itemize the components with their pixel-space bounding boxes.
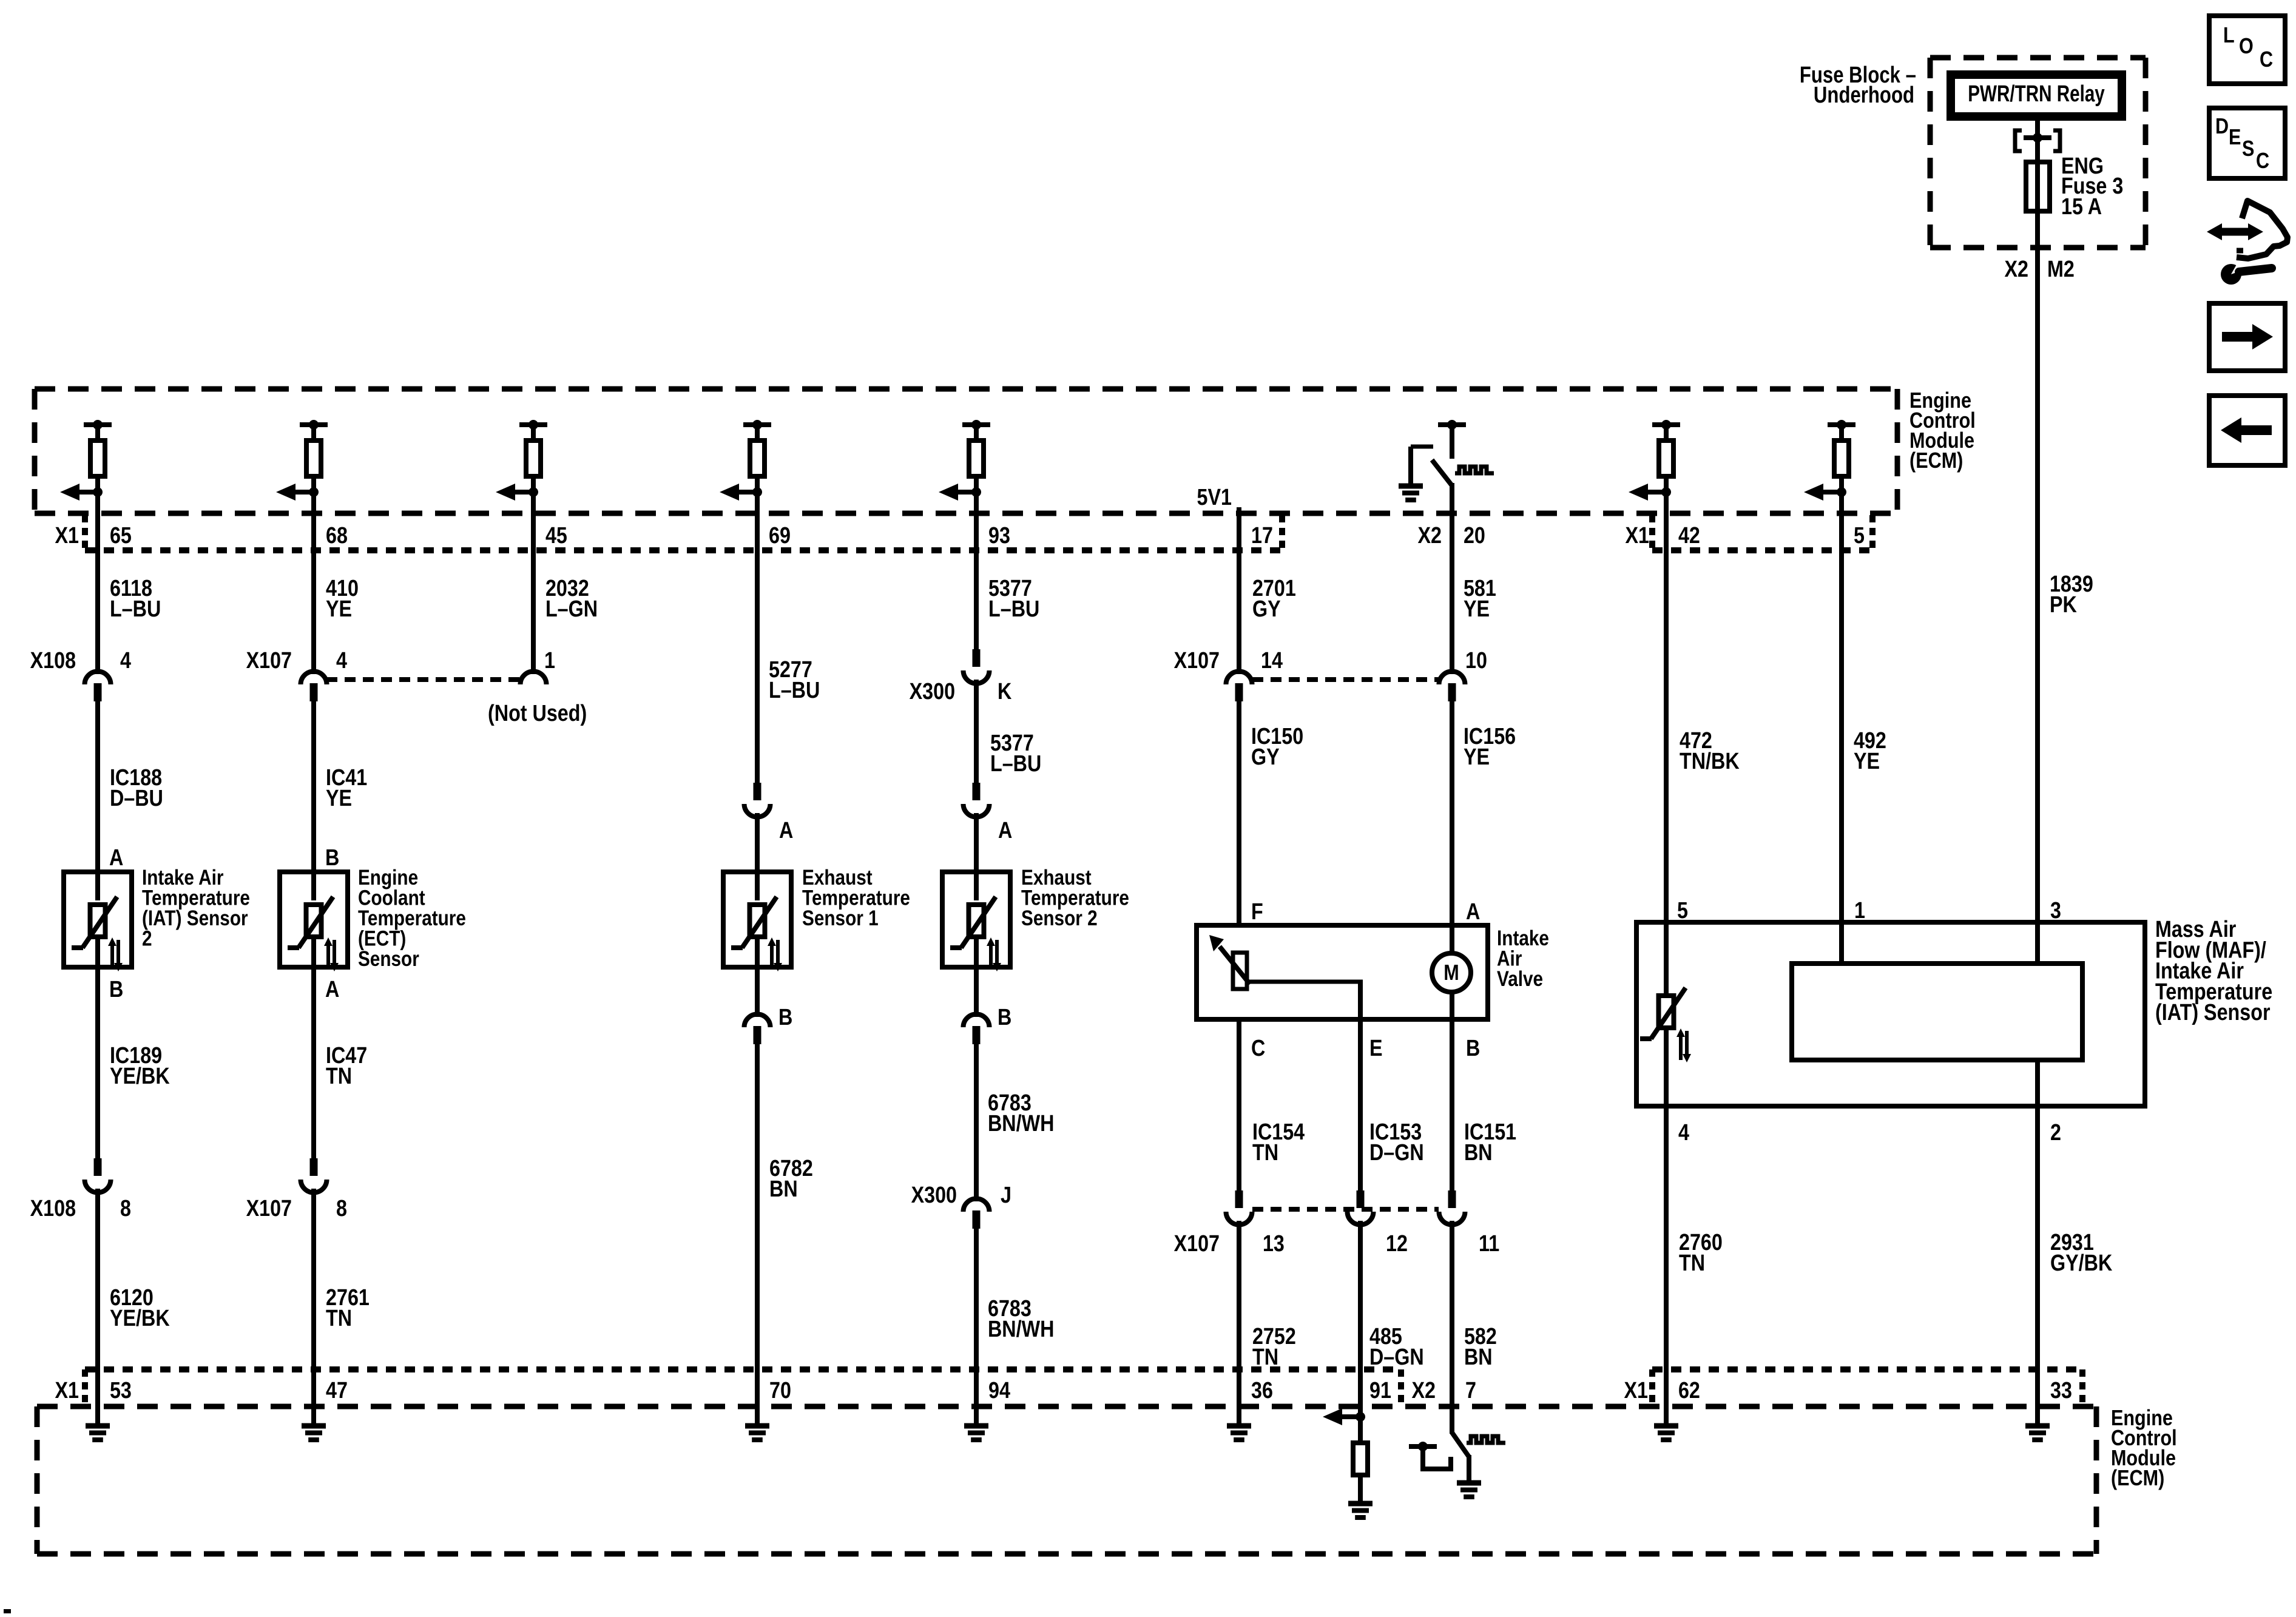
svg-text:11: 11 — [1479, 1231, 1499, 1257]
svg-text:1: 1 — [544, 648, 555, 673]
svg-text:K: K — [998, 679, 1012, 704]
svg-text:B: B — [109, 977, 123, 1002]
svg-text:X300: X300 — [910, 679, 955, 704]
svg-text:3: 3 — [2050, 898, 2061, 923]
svg-text:62: 62 — [1678, 1378, 1700, 1403]
svg-text:TN: TN — [1252, 1140, 1278, 1166]
svg-text:C: C — [2256, 149, 2269, 174]
svg-text:17: 17 — [1251, 523, 1273, 549]
svg-text:E: E — [1369, 1036, 1383, 1061]
svg-text:2: 2 — [2050, 1120, 2061, 1146]
svg-text:L–GN: L–GN — [545, 596, 598, 622]
svg-text:BN: BN — [1464, 1140, 1493, 1166]
svg-text:(Not Used): (Not Used) — [488, 701, 587, 726]
svg-text:A: A — [998, 818, 1012, 843]
svg-text:5V1: 5V1 — [1197, 485, 1232, 510]
svg-text:X1: X1 — [55, 1378, 78, 1403]
svg-text:TN: TN — [1252, 1345, 1278, 1370]
svg-text:4: 4 — [1678, 1120, 1689, 1146]
svg-text:A: A — [109, 845, 123, 871]
svg-text:X108: X108 — [30, 1196, 76, 1221]
svg-text:X1: X1 — [55, 523, 78, 549]
svg-text:93: 93 — [988, 523, 1010, 549]
svg-text:68: 68 — [326, 523, 348, 549]
svg-text:YE: YE — [1464, 744, 1490, 770]
svg-text:L–BU: L–BU — [990, 751, 1041, 777]
svg-text:F: F — [1251, 899, 1263, 925]
svg-text:D–GN: D–GN — [1369, 1140, 1424, 1166]
svg-text:14: 14 — [1261, 648, 1283, 673]
svg-text:12: 12 — [1386, 1231, 1408, 1257]
svg-text:BN/WH: BN/WH — [988, 1317, 1054, 1342]
svg-text:D–BU: D–BU — [110, 786, 163, 811]
svg-text:PK: PK — [2050, 592, 2077, 618]
svg-text:A: A — [779, 818, 793, 843]
svg-text:X2: X2 — [1418, 523, 1442, 549]
svg-text:L–BU: L–BU — [988, 596, 1039, 622]
svg-text:TN: TN — [1679, 1251, 1705, 1276]
svg-text:8: 8 — [120, 1196, 131, 1221]
svg-text:A: A — [325, 977, 339, 1002]
svg-text:B: B — [325, 845, 339, 871]
svg-text:13: 13 — [1263, 1231, 1285, 1257]
svg-text:2: 2 — [142, 927, 152, 950]
svg-text:BN/WH: BN/WH — [988, 1111, 1054, 1136]
svg-text:36: 36 — [1251, 1378, 1273, 1403]
svg-text:O: O — [2239, 35, 2254, 59]
svg-text:YE: YE — [326, 596, 352, 622]
svg-text:X108: X108 — [30, 648, 76, 673]
svg-text:D: D — [2215, 115, 2229, 139]
svg-text:Underhood: Underhood — [1814, 83, 1914, 108]
svg-text:BN: BN — [1464, 1345, 1493, 1370]
svg-text:E: E — [2229, 126, 2241, 150]
svg-text:4: 4 — [120, 648, 131, 673]
svg-text:X1: X1 — [1625, 523, 1649, 549]
svg-text:53: 53 — [110, 1378, 132, 1403]
svg-text:8: 8 — [336, 1196, 347, 1221]
svg-text:YE/BK: YE/BK — [110, 1064, 170, 1089]
svg-text:5: 5 — [1677, 898, 1688, 923]
svg-text:BN: BN — [769, 1176, 798, 1202]
svg-text:TN: TN — [326, 1064, 352, 1089]
svg-text:C: C — [2260, 48, 2273, 72]
svg-text:B: B — [998, 1005, 1011, 1030]
svg-text:(IAT) Sensor: (IAT) Sensor — [142, 906, 248, 930]
svg-text:42: 42 — [1678, 523, 1700, 549]
svg-text:(IAT) Sensor: (IAT) Sensor — [2155, 1000, 2271, 1025]
svg-text:(ECM): (ECM) — [2111, 1467, 2164, 1491]
svg-text:94: 94 — [988, 1378, 1010, 1403]
svg-text:10: 10 — [1465, 648, 1487, 673]
svg-text:Sensor: Sensor — [358, 947, 419, 971]
svg-text:A: A — [1466, 899, 1480, 925]
svg-text:M2: M2 — [2047, 257, 2075, 282]
svg-text:GY: GY — [1252, 596, 1281, 622]
svg-text:J: J — [1001, 1183, 1011, 1208]
svg-text:47: 47 — [326, 1378, 348, 1403]
svg-text:YE/BK: YE/BK — [110, 1306, 170, 1331]
svg-text:YE: YE — [326, 786, 352, 811]
svg-text:GY/BK: GY/BK — [2050, 1251, 2113, 1276]
svg-text:70: 70 — [769, 1378, 791, 1403]
svg-text:5: 5 — [1854, 523, 1865, 549]
svg-text:M: M — [1443, 961, 1459, 985]
svg-text:X300: X300 — [911, 1183, 957, 1208]
svg-text:33: 33 — [2050, 1378, 2072, 1403]
svg-text:Sensor 1: Sensor 1 — [802, 906, 879, 930]
svg-text:B: B — [1466, 1036, 1480, 1061]
svg-text:65: 65 — [110, 523, 132, 549]
svg-text:X1: X1 — [1624, 1378, 1648, 1403]
svg-text:S: S — [2242, 137, 2254, 161]
svg-text:69: 69 — [769, 523, 791, 549]
svg-text:X2: X2 — [1411, 1378, 1435, 1403]
svg-text:4: 4 — [336, 648, 347, 673]
svg-text:TN: TN — [326, 1306, 352, 1331]
svg-text:YE: YE — [1854, 749, 1880, 774]
svg-text:GY: GY — [1251, 744, 1280, 770]
svg-text:X107: X107 — [246, 1196, 292, 1221]
svg-text:D–GN: D–GN — [1369, 1345, 1424, 1370]
svg-text:X2: X2 — [2004, 257, 2028, 282]
svg-text:C: C — [1251, 1036, 1265, 1061]
svg-text:X107: X107 — [1174, 1231, 1220, 1257]
svg-text:1: 1 — [1854, 898, 1865, 923]
svg-text:20: 20 — [1464, 523, 1485, 549]
svg-text:L–BU: L–BU — [110, 596, 161, 622]
svg-text:TN/BK: TN/BK — [1680, 749, 1740, 774]
svg-text:91: 91 — [1369, 1378, 1391, 1403]
svg-text:Valve: Valve — [1497, 967, 1543, 991]
svg-text:(ECM): (ECM) — [1909, 449, 1963, 473]
svg-text:X107: X107 — [1174, 648, 1220, 673]
svg-text:15 A: 15 A — [2061, 194, 2102, 220]
svg-text:L–BU: L–BU — [769, 678, 820, 703]
svg-text:L: L — [2223, 24, 2235, 48]
svg-text:B: B — [778, 1005, 792, 1030]
svg-text:7: 7 — [1465, 1378, 1476, 1403]
svg-text:Sensor 2: Sensor 2 — [1021, 906, 1098, 930]
svg-text:45: 45 — [545, 523, 567, 549]
svg-text:PWR/TRN Relay: PWR/TRN Relay — [1968, 81, 2105, 107]
svg-text:YE: YE — [1464, 596, 1490, 622]
svg-text:X107: X107 — [246, 648, 292, 673]
